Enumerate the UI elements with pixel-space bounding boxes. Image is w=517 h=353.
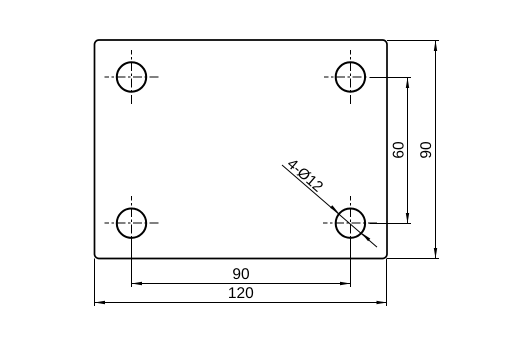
svg-text:120: 120 [228,285,254,302]
svg-text:60: 60 [391,141,408,159]
svg-text:90: 90 [418,141,435,159]
svg-text:90: 90 [232,266,250,283]
